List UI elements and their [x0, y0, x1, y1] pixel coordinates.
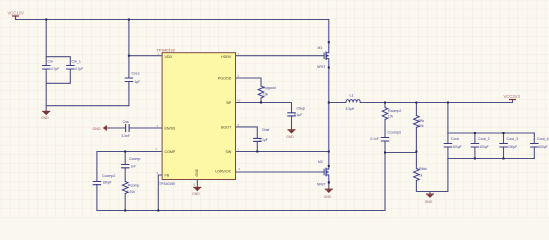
svg-text:SW: SW [226, 150, 232, 154]
junction Cout_2 bottom [474, 158, 476, 160]
svg-text:Ccomp3: Ccomp3 [388, 131, 401, 135]
capacitor Css (series, vertical plates) [122, 120, 130, 138]
svg-text:FB: FB [165, 174, 170, 178]
junction Ccomp3 bottom / FB riser [384, 152, 386, 154]
svg-text:Cout_3: Cout_3 [507, 137, 519, 141]
capacitor Cout_6 [530, 137, 548, 149]
capacitor Ccomp3 [371, 131, 401, 142]
junction at Cin branch on VCC rail [45, 19, 47, 21]
wire input gnd line [46, 105, 129, 107]
power port VCC3V3 (output) [504, 94, 521, 100]
wire Ccomp2 bottom [96, 185, 98, 211]
IC GND pin to ground [192, 180, 201, 196]
svg-text:L1: L1 [350, 94, 354, 98]
wire Cbst bottom [256, 141, 258, 151]
svg-text:11: 11 [193, 182, 196, 186]
wires group [16, 20, 535, 211]
svg-text:100µF: 100µF [508, 145, 517, 149]
ground symbol input [41, 106, 50, 120]
svg-text:Cbyp: Cbyp [297, 107, 305, 111]
svg-text:Cout: Cout [451, 137, 459, 141]
junction Rcomp bottom on FB rail [124, 210, 126, 212]
svg-text:100µF: 100µF [480, 145, 489, 149]
wire Cout bottom rail [448, 158, 534, 160]
svg-text:VCC12V: VCC12V [8, 11, 24, 16]
ground symbol M2 [324, 184, 333, 200]
wire top VCC rail [16, 19, 329, 21]
wire Ccomp branch [124, 152, 126, 165]
junction Cbst bottom on SW net [256, 151, 258, 153]
svg-text:PGOOD: PGOOD [218, 77, 232, 81]
transistor M2 (low side NFET) [317, 160, 330, 187]
wire Cout feed [447, 103, 449, 134]
svg-text:GND: GND [286, 135, 294, 139]
wire Cin bottom mini-rail [46, 70, 70, 83]
svg-text:100µF: 100µF [539, 145, 548, 149]
svg-text:3.3µH: 3.3µH [346, 107, 355, 111]
svg-text:VDD: VDD [165, 55, 173, 59]
wire SW to M2 drain [328, 152, 330, 166]
svg-text:HDRV: HDRV [221, 55, 232, 59]
junction Rcomp2 top on VOUT [384, 102, 386, 104]
svg-text:0.1µF: 0.1µF [260, 138, 268, 142]
capacitor Cout [444, 137, 462, 149]
capacitor Cvcc [125, 72, 140, 85]
svg-text:Rfbb: Rfbb [419, 167, 427, 171]
capacitor Cbst [253, 128, 269, 142]
svg-text:GND: GND [195, 168, 199, 176]
svg-text:Cin_1: Cin_1 [72, 60, 81, 64]
svg-text:GND: GND [425, 200, 433, 204]
wire COMP [97, 152, 162, 182]
capacitor Cout_3 [499, 137, 518, 149]
wire Cout top rail [448, 132, 534, 134]
wire Cvcc vertical [128, 20, 130, 78]
IC U1 TPS40192 body [157, 47, 236, 186]
svg-text:100µF: 100µF [453, 145, 462, 149]
wire SW [236, 151, 329, 153]
resistor Rcomp [122, 182, 139, 195]
svg-text:17k: 17k [388, 115, 394, 119]
svg-text:0.1µF: 0.1µF [294, 113, 302, 117]
wire M1 drain drop [328, 20, 330, 48]
capacitor Cin_1 [66, 60, 83, 72]
ground port at EN/SS (left arrow) [93, 126, 107, 131]
ground symbol Cbyp [286, 130, 295, 139]
wire Ccomp3 bottom [384, 141, 386, 153]
wire EN/SS right [129, 127, 162, 129]
svg-text:1.91k: 1.91k [127, 190, 135, 194]
svg-text:Ccomp: Ccomp [129, 157, 140, 161]
svg-text:NFET: NFET [317, 183, 326, 187]
junction SW wire to FET leg [328, 151, 330, 153]
resistor Rfbb [414, 167, 427, 180]
svg-text:M2: M2 [318, 160, 323, 164]
wire EN/SS left [107, 127, 126, 129]
wire Rcomp2 branch [384, 103, 386, 108]
resistor Rcomp2 [382, 108, 401, 120]
inductor L1 [346, 94, 361, 112]
svg-text:Rcomp: Rcomp [128, 184, 139, 188]
svg-text:Ccomp2: Ccomp2 [102, 174, 115, 178]
svg-text:GND: GND [192, 192, 200, 196]
capacitor Cout_2 [471, 137, 490, 149]
svg-text:3.3nF: 3.3nF [122, 134, 130, 138]
svg-text:1nF: 1nF [131, 165, 137, 169]
junction Cout_3 bottom [503, 158, 505, 160]
wire Rpgood bottom [260, 98, 262, 103]
capacitor Ccomp [121, 157, 140, 169]
svg-text:TPS40192: TPS40192 [157, 47, 175, 52]
junction Cout_3 top [503, 132, 505, 134]
svg-text:GND: GND [93, 127, 101, 131]
svg-text:1k: 1k [419, 174, 423, 178]
transistor M1 (high side NFET) [317, 41, 330, 69]
wire Rfbb bottom to gnd [416, 181, 448, 192]
capacitor Cin [42, 60, 59, 72]
wire Rcomp bottom [124, 194, 126, 211]
svg-text:NFET: NFET [317, 65, 326, 69]
junction Cout_2 top [474, 132, 476, 134]
svg-text:180pF: 180pF [103, 181, 112, 185]
wire Cin branch vertical [45, 20, 47, 66]
svg-text:GND: GND [41, 116, 49, 120]
junction at Cvcc branch on VCC rail [128, 19, 130, 21]
wire LDRV [236, 171, 325, 173]
svg-text:GND: GND [324, 195, 332, 199]
resistor Rpgood [258, 86, 275, 98]
junction VDD tap [128, 55, 130, 57]
wire Ccomp to Rcomp [124, 168, 126, 182]
wire VOUT line [329, 102, 346, 104]
svg-text:EN/SS: EN/SS [165, 127, 176, 131]
svg-text:Rpgood: Rpgood [263, 86, 276, 90]
wire Cin down to gnd line [45, 83, 47, 105]
svg-text:Rfb: Rfb [419, 119, 425, 123]
svg-text:4.7µF: 4.7µF [75, 67, 83, 71]
wire FB rail riser [384, 153, 386, 211]
svg-text:Cout_6: Cout_6 [537, 137, 549, 141]
junction Ccomp branch on COMP wire [124, 151, 126, 153]
svg-text:M1: M1 [318, 46, 323, 50]
junction Cout feed on VOUT [447, 102, 449, 104]
capacitor Cbyp [287, 107, 305, 117]
power port VCC12V [8, 11, 24, 20]
wire Cout1 stubs [447, 133, 449, 144]
wire FB [158, 175, 162, 211]
svg-text:Cvcc: Cvcc [132, 72, 140, 76]
svg-text:TPS40190: TPS40190 [159, 182, 175, 186]
IC pin names [165, 55, 233, 178]
wire HDRV [236, 55, 325, 57]
wire Cin top mini-rail [46, 57, 70, 66]
svg-text:0.1nF: 0.1nF [371, 137, 379, 141]
wire BP [236, 103, 292, 113]
svg-text:Cout_2: Cout_2 [478, 137, 490, 141]
svg-text:VCC3V3: VCC3V3 [504, 94, 521, 99]
svg-text:10k: 10k [263, 93, 269, 97]
wire divider mid link [385, 152, 416, 154]
IC pin numbers [156, 52, 241, 175]
svg-text:1µF: 1µF [135, 80, 141, 84]
svg-text:Cin: Cin [48, 60, 53, 64]
svg-text:10k: 10k [419, 124, 425, 128]
wire Rcomp2 to Ccomp3 [384, 120, 386, 138]
junction FB vertical on FB rail [157, 210, 159, 212]
svg-text:BP: BP [227, 101, 232, 105]
svg-text:Css: Css [123, 120, 129, 124]
svg-text:Cbst: Cbst [262, 128, 269, 132]
ground symbol Rfbb/Cout shared [425, 192, 434, 204]
wire M2 source to gnd [328, 182, 330, 184]
wire Cbyp bottom [291, 116, 293, 130]
wire Cvcc below [128, 82, 130, 106]
svg-text:4.7µF: 4.7µF [51, 67, 59, 71]
wire SW node vertical [328, 66, 330, 152]
wire Cout4 stubs [533, 133, 535, 144]
svg-text:BOOT: BOOT [221, 126, 232, 130]
junction Rfb top on VOUT [415, 102, 417, 104]
wire BOOT [236, 127, 258, 138]
svg-text:Rcomp2: Rcomp2 [388, 109, 401, 113]
svg-text:LDRV/OC: LDRV/OC [215, 170, 231, 174]
wire PGOOD [236, 78, 262, 86]
wire Rfb branch [415, 103, 417, 116]
svg-text:10: 10 [237, 99, 241, 103]
wire VDD [129, 55, 162, 57]
svg-text:COMP: COMP [165, 150, 176, 154]
capacitor Ccomp2 [93, 174, 116, 185]
junction divider midpoint [415, 151, 417, 153]
wire Cout2 stubs [474, 133, 476, 144]
wire Cout3 stubs [503, 133, 505, 144]
resistor Rfb [414, 116, 424, 129]
wire Cout gnd drop [447, 159, 449, 192]
junction Rpgood bottom on BP net [260, 102, 262, 104]
wire FB bottom rail [97, 210, 385, 212]
junction SW node to L1 [328, 102, 330, 104]
wire Rfb bottom [415, 128, 417, 152]
wire Rfbb top [415, 152, 417, 169]
